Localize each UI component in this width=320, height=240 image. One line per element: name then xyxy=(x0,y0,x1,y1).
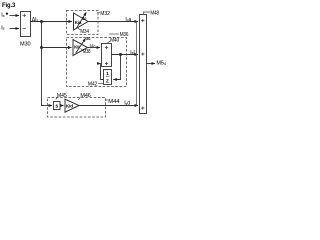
summer M48 xyxy=(140,15,147,114)
svg-text:Z: Z xyxy=(106,78,109,83)
svg-text:Sc: Sc xyxy=(82,16,87,21)
wire feedback return xyxy=(101,64,104,80)
label plus1 M40 xyxy=(105,46,108,49)
wire Sc arrow M38 xyxy=(76,38,86,53)
svg-text:s: s xyxy=(55,104,58,110)
svg-text:M38: M38 xyxy=(83,49,91,55)
svg-text:ΔIs: ΔIs xyxy=(32,17,39,23)
svg-text:M34: M34 xyxy=(80,29,89,35)
dashed box M32 xyxy=(67,11,99,35)
wire vertical line before summer xyxy=(136,22,138,106)
svg-text:M54: M54 xyxy=(156,60,166,66)
wire vertical trunk xyxy=(42,22,45,106)
svg-text:M48: M48 xyxy=(150,10,159,16)
svg-text:IsI0: IsI0 xyxy=(90,43,96,48)
dashed box M36 xyxy=(67,38,127,87)
svg-text:M46: M46 xyxy=(80,93,90,99)
wire leader M34 xyxy=(78,28,81,30)
wire M40 output xyxy=(112,54,139,56)
amplifier M38 xyxy=(73,40,88,56)
label plus bot M48 xyxy=(141,106,144,109)
label plus2 M40 xyxy=(105,62,108,65)
svg-text:Fig.3: Fig.3 xyxy=(2,2,16,9)
dashed box M44 xyxy=(48,98,106,118)
wire M46 output xyxy=(79,105,138,107)
wire input Is* xyxy=(10,15,20,17)
wire leader M42 xyxy=(98,82,103,84)
svg-text:M45: M45 xyxy=(57,93,67,99)
label plus M30 xyxy=(23,14,26,17)
svg-text:Kia: Kia xyxy=(75,20,82,25)
svg-text:M32: M32 xyxy=(100,11,110,17)
wire leader M32 xyxy=(97,12,100,14)
subtractor M30 xyxy=(21,12,31,37)
svg-text:Is: Is xyxy=(1,13,4,19)
wire leader M44 xyxy=(105,99,108,101)
svg-text:M40: M40 xyxy=(110,37,119,43)
svg-text:Kii: Kii xyxy=(74,45,79,50)
svg-text:Kid: Kid xyxy=(66,103,73,108)
node junction dIs xyxy=(40,20,43,23)
wire M34 output xyxy=(88,21,138,23)
wire to M38 xyxy=(42,47,72,49)
wire input Is xyxy=(10,28,20,30)
delay M42 xyxy=(104,70,112,85)
svg-text:IsI: IsI xyxy=(130,50,134,56)
node junction feedback xyxy=(119,53,122,56)
svg-text:Isa: Isa xyxy=(125,17,131,23)
node junction M38 branch xyxy=(40,46,43,49)
wire leader M38 xyxy=(81,49,83,51)
wire leader M40 xyxy=(108,41,111,43)
label plus mid M48 xyxy=(141,52,144,55)
svg-text:M42: M42 xyxy=(88,81,97,87)
wire leader M48 xyxy=(144,12,151,15)
svg-text:M36: M36 xyxy=(120,32,129,38)
label plus top M48 xyxy=(141,19,144,22)
svg-text:Sc: Sc xyxy=(86,36,91,41)
wire leader M36 xyxy=(109,33,119,35)
label minus M30 xyxy=(23,27,26,29)
svg-text:M44: M44 xyxy=(108,99,119,105)
wire Sc arrow M34 xyxy=(76,12,86,28)
wire leader M46 xyxy=(78,97,80,100)
adder M40 xyxy=(102,44,112,67)
wire feedback down xyxy=(113,55,120,80)
wire output xyxy=(147,63,156,65)
amplifier M34 xyxy=(74,13,89,30)
svg-text:Isd: Isd xyxy=(124,101,130,107)
amplifier M46 xyxy=(65,99,79,112)
wire into s box xyxy=(42,105,53,107)
svg-text:Is: Is xyxy=(1,25,4,31)
svg-text:M30: M30 xyxy=(20,42,31,48)
wire s to M46 xyxy=(60,105,64,107)
wire leader M45 xyxy=(56,97,58,100)
wire M38 output xyxy=(88,47,101,49)
svg-text:1: 1 xyxy=(106,71,109,76)
wire M30 output xyxy=(31,21,73,23)
differentiator M45 xyxy=(54,102,61,110)
